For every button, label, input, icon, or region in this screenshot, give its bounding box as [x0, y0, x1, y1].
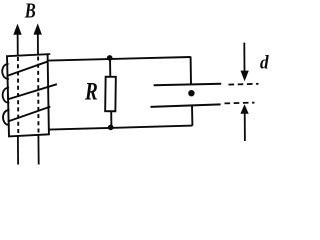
coil turn arc 1 (left loop): [2, 64, 9, 79]
node: top junction dot: [107, 55, 113, 61]
field line right: arrow above coil: [34, 23, 42, 55]
wire: resistor bottom lead: [110, 111, 112, 127]
resistor R body: [105, 77, 116, 112]
field line right: dashed inside coil: [37, 57, 39, 135]
coil core box: [7, 54, 49, 136]
charged particle dot: [188, 90, 194, 96]
coil turn diagonal 3: [8, 107, 51, 122]
box top edge tiny overshoot: [48, 53, 51, 55]
capacitor bottom plate: [151, 104, 221, 107]
svg-text:R: R: [84, 77, 98, 106]
coil turn diagonal 1: [7, 61, 48, 76]
wire: top (coil to capacitor corner): [49, 57, 191, 61]
coil turn diagonal 2: [7, 84, 57, 99]
top plate dashed extension: [229, 83, 259, 86]
field line left: dashed inside coil: [17, 57, 19, 136]
wire: bottom (coil to capacitor corner): [49, 126, 193, 130]
bottom plate dashed extension: [225, 102, 255, 105]
field line left: solid below coil: [17, 137, 19, 165]
coil turn arc 2 (left loop): [3, 88, 10, 103]
d gap marker: up arrow: [240, 104, 248, 141]
wire: capacitor bottom feed: [191, 106, 193, 126]
field line right: solid below coil: [37, 135, 39, 165]
field line left: arrow above coil: [13, 24, 21, 56]
capacitor top plate: [154, 84, 222, 86]
d gap marker: down arrow: [241, 43, 249, 82]
svg-text:d: d: [260, 53, 269, 73]
coil turn arc 3 (left loop): [3, 110, 10, 125]
node: bottom junction dot: [108, 125, 114, 131]
svg-text:B: B: [24, 0, 36, 22]
wire: resistor top lead: [109, 58, 111, 77]
wire: capacitor top feed: [190, 57, 192, 85]
